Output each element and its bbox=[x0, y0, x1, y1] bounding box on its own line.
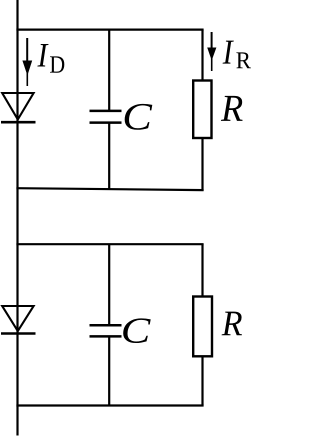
resistor R (upper) bbox=[193, 81, 211, 139]
label C (upper capacitor value) bbox=[125, 104, 153, 130]
wire: middle horizontal rail (bottom of upper cell) bbox=[16, 188, 203, 190]
wire: left vertical bus bbox=[16, 0, 18, 436]
wire: capacitor branch lower stub (upper cell) bbox=[108, 123, 110, 189]
diode D2 (lower) bbox=[1, 306, 36, 334]
arrow ID current bbox=[22, 38, 32, 86]
wire: middle horizontal rail (top of lower cell) bbox=[16, 243, 203, 245]
wire: right branch upper stub (upper cell) bbox=[201, 30, 203, 81]
diode D1 (upper) bbox=[1, 93, 36, 122]
wire: bottom horizontal rail bbox=[16, 404, 203, 406]
label R (lower resistor value) bbox=[222, 312, 242, 336]
resistor R (lower) bbox=[193, 297, 212, 357]
wire: capacitor branch lower stub (lower cell) bbox=[108, 337, 110, 406]
wire: right branch upper stub (lower cell) bbox=[201, 244, 203, 296]
label ID subscript "D" bbox=[50, 56, 64, 72]
capacitor C (lower) bbox=[90, 325, 122, 336]
label R (upper resistor value) bbox=[221, 96, 243, 121]
arrow IR current bbox=[207, 32, 216, 71]
wire: top horizontal rail bbox=[16, 29, 203, 31]
wire: right branch lower stub (upper cell) bbox=[201, 138, 203, 191]
label ID "I" bbox=[37, 44, 48, 67]
wire: capacitor branch upper stub bbox=[108, 30, 110, 111]
label IR subscript "R" bbox=[236, 52, 251, 68]
label IR "I" bbox=[223, 41, 234, 64]
wire: capacitor branch upper stub (lower cell) bbox=[108, 244, 110, 325]
capacitor C (upper) bbox=[90, 111, 122, 123]
wire: right branch lower stub (lower cell) bbox=[201, 356, 203, 405]
label C (lower capacitor value) bbox=[123, 318, 151, 343]
